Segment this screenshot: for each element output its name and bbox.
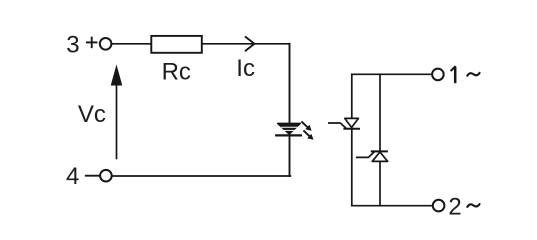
minus sign (-) bbox=[86, 175, 99, 177]
wire terminal3 to resistor bbox=[112, 43, 152, 45]
voltage label Vc bbox=[78, 101, 106, 128]
svg-text:3: 3 bbox=[66, 31, 79, 58]
wire LED cathode down to bottom rail bbox=[289, 135, 291, 176]
bottom rail of triac output bbox=[352, 205, 433, 207]
svg-text:2: 2 bbox=[448, 194, 461, 221]
LED D1 cathode bar bbox=[276, 134, 301, 136]
terminal label "1 ~" bbox=[454, 67, 457, 84]
plus sign (+) bbox=[87, 38, 97, 48]
photo-SCR Q2 cathode bar bbox=[372, 150, 387, 152]
right branch wire (below SCR2 to bottom rail) bbox=[379, 161, 381, 205]
terminal node 4 (cathode input) bbox=[100, 170, 112, 182]
right branch wire (top rail to SCR2 cathode) bbox=[379, 74, 381, 151]
wire resistor to corner (top) bbox=[202, 43, 290, 45]
bottom wire to terminal 4 bbox=[112, 175, 291, 177]
terminal node 2 bbox=[433, 200, 445, 212]
wire corner down to LED anode bbox=[289, 44, 291, 124]
LED light arrow 1 bbox=[302, 122, 312, 131]
photo-SCR Q1 gate bbox=[329, 123, 347, 129]
photo-SCR Q1 cathode bar bbox=[344, 128, 359, 130]
svg-text:Vc: Vc bbox=[78, 101, 106, 128]
photo-SCR Q1 triangle bbox=[345, 118, 359, 127]
LED D1 triangle (hatched) bbox=[278, 123, 301, 134]
left branch wire (anode of SCR1) bbox=[351, 74, 353, 118]
value label Rc bbox=[162, 59, 191, 86]
svg-text:Rc: Rc bbox=[162, 59, 191, 86]
resistor Rc bbox=[151, 36, 202, 53]
terminal node 1 bbox=[432, 69, 444, 81]
label "4" terminal bbox=[66, 163, 79, 190]
terminal label "2 ~" bbox=[448, 194, 461, 221]
left branch wire (below SCR1 to bottom rail) bbox=[351, 129, 353, 206]
top rail of triac output bbox=[352, 73, 432, 75]
voltage arrow Vc (upward) bbox=[111, 65, 123, 159]
svg-text:Ic: Ic bbox=[236, 55, 255, 82]
label "3" terminal bbox=[66, 31, 79, 58]
current label Ic bbox=[236, 55, 255, 82]
LED light arrow 2 bbox=[304, 131, 313, 140]
terminal node 3 (anode input) bbox=[100, 38, 112, 50]
photo-SCR Q2 triangle bbox=[372, 152, 388, 161]
photo-SCR Q2 gate bbox=[357, 152, 374, 158]
svg-text:4: 4 bbox=[66, 163, 79, 190]
current arrow Ic (chevron) bbox=[246, 37, 255, 51]
